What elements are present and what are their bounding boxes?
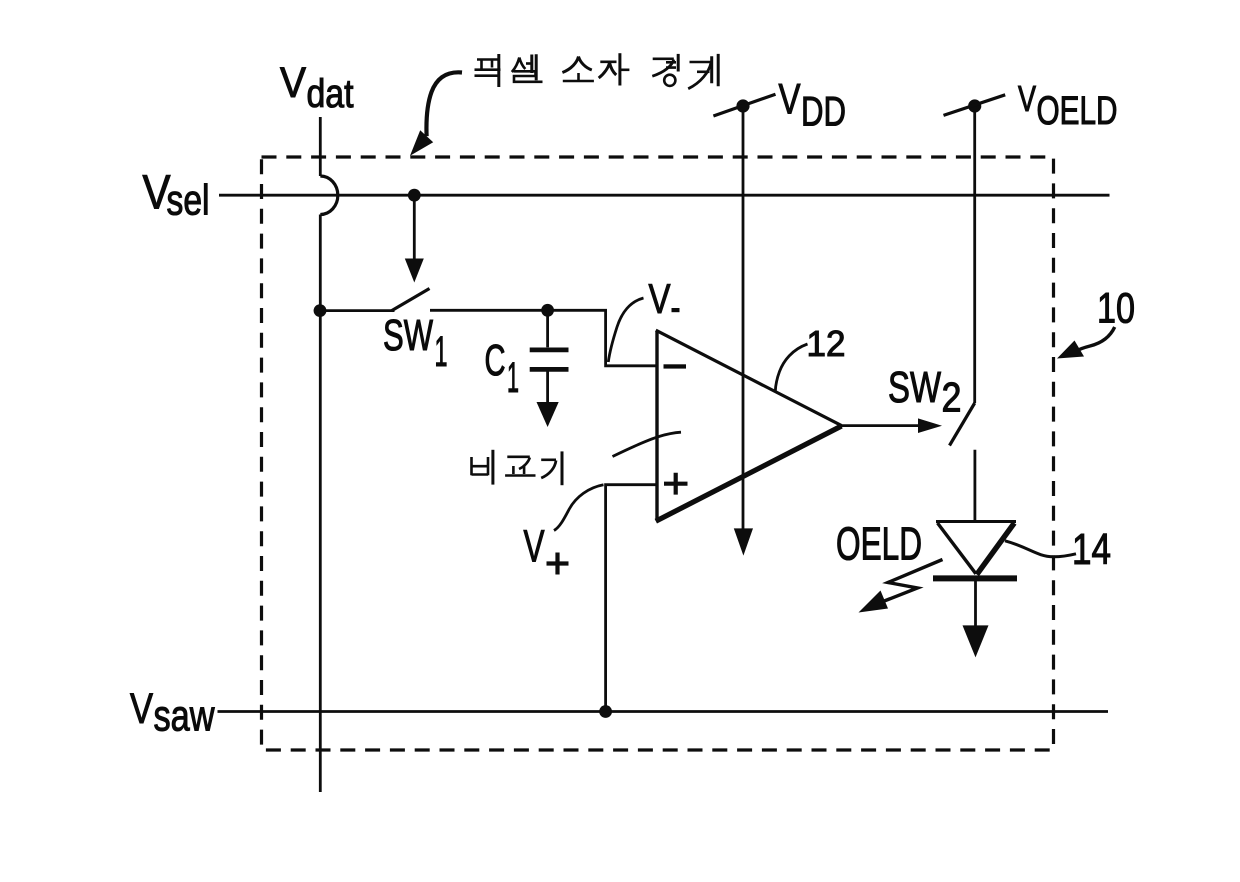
svg-text:10: 10 (1097, 285, 1135, 333)
svg-text:SW: SW (888, 363, 941, 412)
svg-text:SW: SW (383, 311, 433, 360)
svg-text:saw: saw (154, 691, 215, 740)
svg-text:V: V (1018, 78, 1036, 119)
svg-text:V: V (130, 685, 153, 733)
svg-text:V: V (280, 59, 306, 107)
svg-text:14: 14 (1072, 525, 1111, 574)
svg-text:sel: sel (167, 177, 210, 225)
svg-text:12: 12 (807, 323, 846, 364)
svg-text:V: V (649, 275, 671, 322)
svg-text:OELD: OELD (836, 518, 922, 570)
svg-text:OELD: OELD (1037, 89, 1118, 133)
svg-text:C: C (485, 336, 506, 385)
svg-text:dat: dat (307, 72, 354, 116)
svg-text:1: 1 (507, 354, 519, 402)
svg-text:1: 1 (435, 328, 448, 376)
svg-text:V: V (779, 76, 801, 124)
svg-text:DD: DD (801, 88, 846, 135)
svg-text:2: 2 (942, 374, 962, 421)
svg-text:V: V (524, 521, 545, 572)
